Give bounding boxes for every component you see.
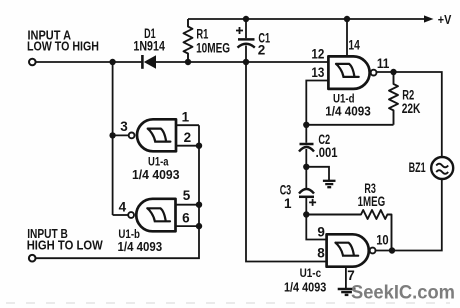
svg-text:1N914: 1N914: [133, 39, 165, 54]
wire pin 7: [345, 267, 347, 289]
capacitor C1: [236, 19, 270, 62]
svg-text:LOW TO HIGH: LOW TO HIGH: [27, 39, 99, 53]
svg-text:7: 7: [347, 268, 355, 283]
svg-text:22K: 22K: [402, 101, 421, 116]
svg-text:4: 4: [119, 200, 127, 215]
wire U1-d output: [377, 72, 442, 157]
wire right vertical input bus to INPUT B: [35, 125, 199, 258]
junction dot C1 top: [243, 16, 249, 22]
svg-text:1: 1: [182, 110, 190, 125]
svg-text:10: 10: [376, 233, 389, 248]
wire R2 bottom to pin13 line: [306, 124, 393, 126]
svg-text:10MEG: 10MEG: [196, 41, 230, 56]
junction dot pin 10: [389, 247, 395, 253]
junction dot pin 11: [390, 69, 396, 75]
junction dot pin3: [109, 132, 115, 138]
svg-text:BZ1: BZ1: [409, 160, 426, 175]
+V arrowhead: [424, 15, 434, 22]
junction dot C3 bottom: [303, 211, 309, 217]
svg-text:11: 11: [377, 56, 390, 71]
junction dot R1 bottom: [185, 59, 191, 65]
svg-text:8: 8: [317, 246, 325, 261]
svg-text:13: 13: [311, 65, 324, 80]
svg-text:SeekIC.com: SeekIC.com: [351, 283, 455, 304]
svg-text:R1: R1: [196, 26, 208, 41]
wire pin 14: [346, 19, 348, 56]
diode D1: [133, 26, 165, 69]
wire ground branch: [306, 167, 329, 180]
wire pin 2: [176, 145, 199, 147]
NAND gate U1-d: [325, 56, 376, 118]
svg-text:U1-d: U1-d: [333, 93, 355, 105]
svg-text:1/4 4093: 1/4 4093: [132, 168, 180, 182]
resistor R3: [306, 181, 391, 250]
junction dot pin6: [196, 223, 202, 229]
svg-text:1/4 4093: 1/4 4093: [284, 281, 326, 295]
svg-text:12: 12: [311, 47, 324, 62]
wire pin 3 stub: [113, 134, 129, 136]
wire top +V rail: [188, 18, 428, 20]
svg-text:3: 3: [120, 119, 128, 134]
svg-text:1MEG: 1MEG: [358, 194, 386, 209]
terminal INPUT A: [29, 59, 36, 66]
buzzer BZ1: [409, 157, 454, 179]
NAND gate U1-c: [284, 234, 376, 294]
junction dot C1 bottom: [243, 59, 249, 65]
NAND gate U1-a: [129, 119, 180, 182]
NAND gate U1-b: [118, 199, 176, 254]
wire pin 5: [176, 204, 200, 206]
svg-text:9: 9: [317, 224, 325, 239]
junction dot pin2: [196, 143, 202, 149]
svg-text:6: 6: [182, 210, 190, 225]
wire pin 6: [176, 225, 200, 227]
wire input A row: [36, 61, 142, 63]
wire (faint scan artifact line): [6, 302, 450, 304]
wire U1-c output to buzzer: [376, 179, 442, 251]
wire pin 1: [176, 124, 199, 126]
svg-text:1/4 4093: 1/4 4093: [325, 105, 371, 119]
junction dot pin5: [196, 202, 202, 208]
svg-text:5: 5: [183, 188, 191, 203]
junction dot pin14 rail: [344, 16, 350, 22]
svg-text:1/4 4093: 1/4 4093: [118, 240, 163, 254]
wire C3 to pin 9: [306, 197, 326, 240]
svg-text:+V: +V: [438, 12, 452, 27]
svg-text:HIGH TO LOW: HIGH TO LOW: [27, 238, 103, 252]
ground (pin 7): [338, 289, 356, 295]
svg-text:14: 14: [348, 37, 360, 52]
wire left vertical from input A to U1-b output: [112, 62, 114, 215]
junction dot input A node: [109, 59, 115, 65]
wire pin 13: [306, 81, 328, 143]
ground (C2): [323, 181, 336, 187]
svg-text:U1-c: U1-c: [300, 268, 322, 280]
junction dot C2 top: [303, 122, 309, 128]
wire pin 4 stub: [113, 214, 129, 216]
wire pin 8 from C1 junction: [246, 62, 327, 262]
capacitor C2: [299, 132, 338, 167]
svg-text:2: 2: [258, 43, 266, 58]
terminal INPUT B: [29, 255, 36, 262]
resistor R1: [184, 19, 231, 62]
wire C2 to C3: [305, 167, 307, 190]
wire diode to gate U1-d pin 12: [156, 61, 328, 63]
svg-text:2: 2: [184, 130, 192, 145]
junction dot ground branch: [303, 164, 309, 170]
svg-text:U1-a: U1-a: [148, 156, 169, 168]
svg-text:.001: .001: [316, 145, 338, 160]
capacitor C3: [280, 183, 316, 211]
svg-text:1: 1: [284, 196, 292, 211]
resistor R2: [389, 72, 421, 125]
